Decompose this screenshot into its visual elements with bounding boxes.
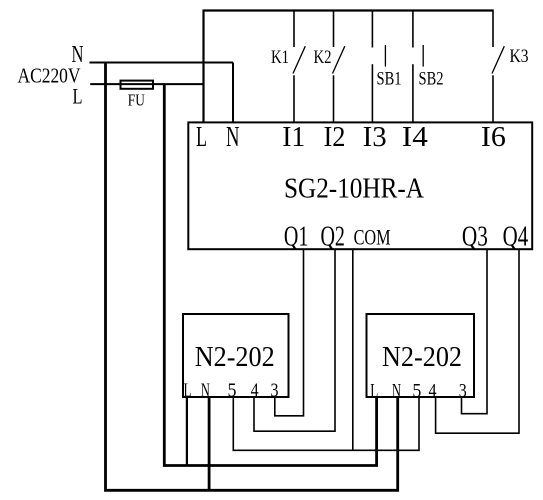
wire Q4 to right box pin 4 [436,249,519,433]
svg-text:3: 3 [271,380,279,402]
svg-text:I2: I2 [324,122,346,153]
svg-text:COM: COM [354,225,391,250]
svg-text:Q2: Q2 [320,222,345,253]
svg-text:I1: I1 [282,122,305,153]
relay module N2-202 right [367,314,475,397]
svg-text:4: 4 [429,380,437,402]
svg-text:L: L [196,122,207,153]
svg-text:I6: I6 [481,122,506,153]
wire Q2 to left box pin 4 [254,249,335,431]
switch K1 [293,11,305,123]
svg-text:5: 5 [228,380,237,402]
svg-text:SB1: SB1 [377,68,402,89]
wire L line [90,83,203,85]
svg-text:K2: K2 [314,47,332,68]
svg-text:3: 3 [459,380,467,402]
svg-text:L: L [73,84,83,109]
fuse FU [121,81,154,89]
svg-text:SG2-10HR-A: SG2-10HR-A [284,174,425,205]
svg-text:Q1: Q1 [284,222,309,253]
svg-text:N2-202: N2-202 [195,342,275,373]
wire N net: drop, bottom bus, right box N lead [106,63,398,491]
wire N line [90,62,234,64]
svg-text:4: 4 [251,380,259,402]
wire Q1 to left box pin 3 [275,249,304,416]
wire left box N lead [208,397,211,490]
svg-text:AC220V: AC220V [18,64,81,88]
switch K3 [492,10,504,123]
switch K2 [333,11,345,123]
svg-text:FU: FU [128,91,145,110]
svg-text:N: N [226,122,240,153]
wire L net: drop from fuse line, lower bus, right box L lead [164,84,376,465]
svg-text:K3: K3 [510,46,529,67]
wire left box L lead [186,397,188,466]
wire bus left vertical to L terminal [202,10,204,123]
svg-text:I4: I4 [402,122,428,153]
svg-text:SB2: SB2 [419,68,444,89]
svg-text:N: N [392,380,401,402]
wire COM down [352,249,354,450]
svg-text:5: 5 [412,380,421,402]
wire top bus [204,9,494,11]
wire Q3 to right box pin 3 [462,249,488,414]
svg-text:I3: I3 [363,122,387,153]
relay module N2-202 left [183,314,289,397]
pushbutton SB1 [372,11,385,123]
wire N line drop to box N terminal [232,63,234,123]
relay box SG2-10HR-A [188,122,532,249]
svg-text:K1: K1 [271,47,289,68]
svg-text:N2-202: N2-202 [382,342,462,373]
svg-text:L: L [370,380,378,402]
svg-text:Q3: Q3 [462,222,488,253]
svg-text:Q4: Q4 [503,222,529,253]
pushbutton SB2 [413,11,423,123]
wire COM bus joining left pin 5 and right pin 5 [233,397,419,450]
